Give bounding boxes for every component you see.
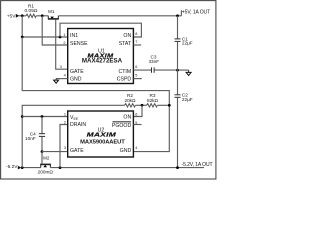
node junction ON tap: [141, 104, 144, 107]
node junction +5V rail/C1: [176, 14, 179, 17]
wire U2 GND net from +5V down left side: [22, 37, 169, 152]
node junction IN1 row: [21, 36, 24, 39]
node junction C4/GATE row: [41, 150, 44, 153]
svg-text:2: 2: [63, 41, 65, 45]
node junction DRAIN tap: [59, 166, 62, 169]
svg-text:20kΩ: 20kΩ: [124, 98, 136, 103]
wire +5V entry: [19, 15, 26, 17]
svg-text:+5V, 1A OUT: +5V, 1A OUT: [182, 10, 210, 16]
svg-text:-5.2V, 1A OUT: -5.2V, 1A OUT: [182, 162, 213, 168]
svg-text:6: 6: [135, 65, 137, 69]
wire STAT stub: [133, 44, 141, 46]
svg-text:22µF: 22µF: [182, 41, 193, 46]
svg-text:DRAIN: DRAIN: [70, 122, 86, 128]
svg-text:MAX4272ESA: MAX4272ESA: [82, 58, 123, 65]
svg-text:4: 4: [64, 74, 66, 78]
svg-text:MAX5900AAEUT: MAX5900AAEUT: [80, 139, 125, 145]
svg-text:CTIM: CTIM: [119, 69, 132, 75]
wire IN1 drop from +5V: [22, 16, 67, 37]
svg-text:SENSE: SENSE: [70, 41, 88, 47]
svg-text:5: 5: [135, 73, 137, 77]
svg-text:STAT: STAT: [119, 41, 132, 47]
ground symbol U1 GND: [54, 79, 59, 84]
svg-text:8: 8: [135, 32, 137, 36]
svg-text:1: 1: [64, 112, 66, 116]
svg-text:M2: M2: [43, 156, 50, 161]
svg-text:-5.2V: -5.2V: [6, 164, 18, 170]
transistor M2: [38, 152, 54, 175]
svg-text:3: 3: [60, 65, 62, 69]
node +5V output label: [181, 10, 210, 16]
svg-text:33nF: 33nF: [148, 59, 159, 64]
node junction ON loop/IN1: [59, 36, 62, 39]
svg-text:82kΩ: 82kΩ: [147, 98, 159, 103]
wire ON tap to U2 pin 6: [133, 105, 142, 116]
node junction -5.2V input: [21, 166, 24, 169]
svg-text:ON: ON: [123, 33, 131, 39]
wire -5.2V rail left: [21, 167, 41, 169]
ground symbol output: [186, 70, 191, 75]
resistor R3: [147, 93, 159, 107]
svg-text:CSPD: CSPD: [117, 77, 132, 83]
wire R1 to M1: [36, 15, 48, 17]
wire GATE row U2: [42, 151, 68, 153]
border frame: [1, 1, 216, 179]
wire DRAIN pin to rail: [60, 125, 68, 168]
svg-text:M1: M1: [48, 9, 55, 14]
wire R2 to R3: [135, 104, 146, 106]
wire VEE row: [22, 116, 67, 118]
wire M1 gate to U1 GATE pin 3: [56, 20, 68, 70]
svg-text:3: 3: [64, 146, 66, 150]
svg-text:GATE: GATE: [70, 148, 84, 154]
svg-text:GATE: GATE: [70, 69, 84, 75]
wire PGOOD stub: [133, 124, 141, 126]
svg-text:10nF: 10nF: [25, 136, 36, 141]
node junction VEE row: [21, 115, 24, 118]
wire SENSE drop from R1 right: [42, 16, 67, 45]
IC U2 MAX5900AAEUT: [68, 111, 134, 157]
node junction C4 top: [41, 115, 44, 118]
svg-text:6: 6: [135, 112, 137, 116]
svg-text:4: 4: [135, 146, 137, 150]
capacitor C2: [175, 70, 193, 168]
svg-text:PGOOD: PGOOD: [112, 123, 132, 129]
svg-text:2: 2: [64, 120, 66, 124]
node junction R3/GND net: [168, 104, 171, 107]
node -5.2V input label: [6, 164, 21, 170]
resistor R1: [25, 4, 38, 18]
capacitor C1: [175, 16, 193, 70]
transistor M1: [48, 9, 59, 19]
svg-text:200mΩ: 200mΩ: [38, 170, 54, 175]
wire ON loop to pin 8: [60, 23, 141, 37]
IC U1 MAX4272ESA: [68, 29, 134, 84]
node +5V input label: [7, 13, 20, 19]
node junction C2 bottom: [176, 166, 179, 169]
svg-text:GND: GND: [120, 148, 132, 154]
capacitor C4: [25, 117, 45, 152]
svg-text:0.05Ω: 0.05Ω: [25, 8, 38, 14]
svg-text:GND: GND: [70, 77, 82, 83]
svg-text:IN1: IN1: [70, 33, 78, 39]
svg-text:+5V: +5V: [7, 13, 16, 19]
svg-text:MAXIM: MAXIM: [87, 132, 117, 138]
wire -5.2V riser to divider: [22, 105, 124, 167]
capacitor C3: [148, 54, 159, 72]
node junction R1/SENSE: [41, 14, 44, 17]
wire C3 to ground junction: [154, 69, 188, 71]
wire -5.2V rail right of M2: [50, 167, 204, 169]
wire CSPD stub: [133, 78, 141, 80]
wire M1 to output: [58, 15, 181, 17]
svg-text:1: 1: [63, 33, 65, 37]
resistor R2: [124, 93, 136, 107]
svg-text:VEE: VEE: [70, 115, 79, 121]
svg-text:ON: ON: [123, 114, 131, 120]
svg-text:7: 7: [135, 40, 137, 44]
wire R3 to GND net: [157, 104, 169, 106]
svg-text:22µF: 22µF: [182, 97, 193, 102]
node junction +5V/R1: [21, 14, 24, 17]
wire CTIM to C3: [133, 69, 151, 71]
wire GND pin 4 stub: [56, 78, 68, 80]
node ground junction: [176, 69, 179, 72]
